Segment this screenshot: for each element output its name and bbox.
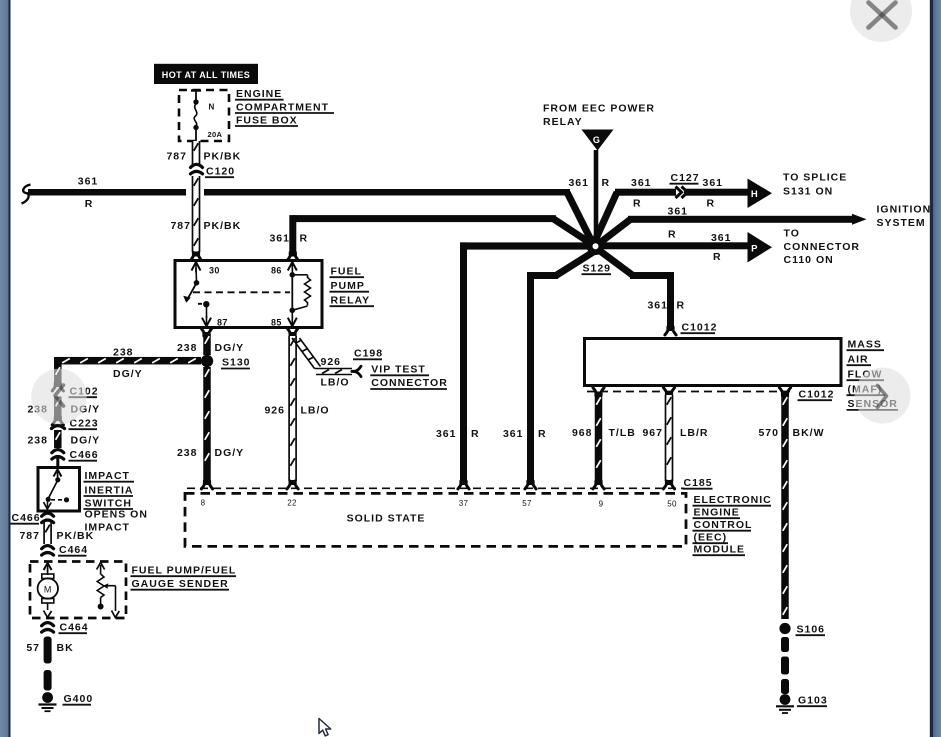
- label S106: [796, 624, 826, 636]
- svg-text:BK: BK: [57, 642, 74, 654]
- svg-text:P: P: [751, 244, 758, 255]
- label C464 upper: [58, 544, 88, 556]
- svg-text:H: H: [751, 189, 758, 200]
- svg-text:57: 57: [26, 642, 40, 654]
- svg-text:C464: C464: [60, 622, 89, 634]
- label 361 R at relay feed: [269, 233, 308, 245]
- label 361 R below G: [568, 177, 610, 189]
- relay K fuel pump relay box: [175, 261, 322, 328]
- fuel gauge sender variable resistor: [97, 563, 120, 618]
- svg-text:361: 361: [647, 300, 668, 312]
- label TO SPLICE S131 ON: [783, 172, 847, 198]
- EEC pin numbers 8 22 37 57 9 50: [201, 499, 677, 509]
- svg-text:85: 85: [271, 318, 282, 328]
- label 787 PK/BK bottom: [19, 530, 94, 542]
- connector C127: [676, 187, 688, 199]
- triangle terminal P to connector C110: [748, 232, 773, 263]
- svg-text:R: R: [713, 251, 722, 263]
- label 361 R left: [78, 176, 99, 211]
- connector flare at EEC pin 57: [525, 480, 536, 489]
- labels 968 T/LB 967 LB/R 570 BK/W: [572, 427, 825, 439]
- wire 361 R to relay pin 86: [289, 215, 591, 253]
- svg-text:R: R: [85, 198, 94, 210]
- right blue border strip overlay: [930, 0, 941, 737]
- svg-text:ENGINE: ENGINE: [694, 507, 740, 519]
- svg-text:22: 22: [287, 499, 297, 508]
- wire 238 DG/Y S130 to EEC pin 8: [203, 367, 211, 481]
- wire 361 R main horizontal from left edge: [22, 185, 593, 243]
- svg-text:R: R: [538, 428, 547, 440]
- switch SW impact inertia switch box: [38, 468, 80, 512]
- relay switch contact: [183, 280, 199, 303]
- connector C223: [52, 416, 65, 429]
- fuel pump and sender dashed box: [30, 562, 126, 619]
- wire 968 T/LB MAF to EEC pin 9: [595, 395, 603, 481]
- svg-text:SWITCH: SWITCH: [85, 497, 132, 509]
- label C102: [69, 386, 99, 398]
- inertia switch internals: [44, 470, 70, 510]
- svg-text:ELECTRONIC: ELECTRONIC: [694, 494, 772, 506]
- connector C120: [191, 164, 203, 174]
- label 926 at VIP branch: [321, 356, 342, 368]
- connector flare at EEC pin 9: [593, 480, 604, 489]
- label 238 DG/Y mid: [27, 404, 100, 416]
- label FUEL PUMP RELAY: [330, 266, 375, 307]
- label 361 R at pin 37: [436, 428, 480, 440]
- wire 361 R S129 to C127 and H: [594, 189, 749, 244]
- label 238 DG/Y upper: [177, 342, 244, 354]
- svg-text:57: 57: [522, 499, 532, 508]
- C185 connector dashed line above EEC: [187, 487, 684, 489]
- connector flare below relay pin 87: [201, 328, 212, 337]
- svg-text:50: 50: [667, 500, 677, 509]
- svg-text:37: 37: [459, 499, 469, 508]
- svg-text:238: 238: [177, 447, 198, 459]
- splice S129 ring: [587, 238, 605, 256]
- relay pin 87 contact dot and lead: [198, 301, 211, 326]
- label FROM EEC POWER RELAY: [543, 103, 655, 129]
- ground G400: [39, 692, 57, 711]
- svg-text:G: G: [593, 135, 600, 145]
- connector C466 upper: [52, 450, 64, 467]
- svg-text:FUSE BOX: FUSE BOX: [236, 114, 298, 126]
- svg-text:DG/Y: DG/Y: [71, 435, 101, 447]
- svg-text:C127: C127: [671, 172, 700, 184]
- svg-text:361: 361: [269, 233, 290, 245]
- label 361 R at P wire: [711, 232, 732, 263]
- wire 361 R S129 to EEC pin 37: [460, 242, 588, 481]
- svg-text:M: M: [44, 585, 52, 595]
- label C464 lower: [59, 622, 89, 634]
- svg-text:OPENS ON: OPENS ON: [85, 509, 148, 521]
- svg-text:DG/Y: DG/Y: [215, 342, 245, 354]
- svg-text:787: 787: [170, 220, 191, 232]
- connector flare at EEC pin 37: [458, 480, 469, 489]
- svg-text:C110 ON: C110 ON: [784, 254, 834, 266]
- engine compartment fuse box (dashed): [179, 90, 229, 141]
- svg-text:IGNITION: IGNITION: [877, 204, 932, 216]
- wire 570 BK/W MAF to S106: [781, 395, 789, 619]
- svg-text:R: R: [602, 177, 611, 189]
- connector flare 968 top: [593, 388, 604, 397]
- svg-text:INERTIA: INERTIA: [85, 484, 134, 496]
- svg-text:C198: C198: [354, 348, 383, 360]
- label 926 LB/O vertical: [264, 405, 329, 417]
- svg-text:LB/R: LB/R: [680, 427, 709, 439]
- svg-text:ENGINE: ENGINE: [236, 88, 282, 100]
- splice S130: [201, 355, 213, 367]
- mouse cursor: [319, 719, 331, 736]
- svg-text:238: 238: [177, 342, 198, 354]
- relay dashed actuation line: [193, 291, 290, 293]
- label C127: [670, 172, 700, 184]
- label G400: [63, 693, 94, 705]
- svg-text:361: 361: [78, 176, 99, 188]
- connector flare below relay pin 85: [287, 328, 298, 337]
- fuse F 20A: [191, 90, 223, 141]
- svg-text:238: 238: [113, 347, 134, 359]
- label 787 PK/BK lower: [170, 220, 241, 232]
- svg-text:AIR: AIR: [848, 354, 869, 366]
- svg-text:IMPACT: IMPACT: [85, 470, 130, 482]
- svg-text:CONTROL: CONTROL: [694, 519, 753, 531]
- wire 361 R S129 to MAF C1012: [598, 250, 674, 328]
- connector flare at EEC pin 8: [201, 480, 212, 489]
- wire 787 PK/BK switch to C464: [44, 523, 51, 545]
- svg-text:30: 30: [209, 266, 220, 276]
- label FUEL PUMP/FUEL GAUGE SENDER: [131, 565, 237, 591]
- connector flare at EEC pin 50: [663, 480, 674, 489]
- label 57 BK: [26, 642, 73, 654]
- svg-text:361: 361: [503, 428, 524, 440]
- connector C1012 flare top: [665, 326, 676, 335]
- svg-text:R: R: [633, 198, 642, 210]
- label S130: [221, 357, 251, 369]
- label C198: [353, 348, 383, 360]
- svg-text:361: 361: [668, 206, 689, 218]
- wire 238 DG/Y down to C102: [54, 365, 62, 384]
- svg-text:361: 361: [631, 177, 652, 189]
- ground G103: [776, 694, 794, 713]
- svg-text:967: 967: [642, 427, 663, 439]
- relay coil: [288, 262, 311, 326]
- svg-text:LB/O: LB/O: [301, 405, 330, 417]
- svg-text:PK/BK: PK/BK: [204, 151, 242, 163]
- svg-text:PK/BK: PK/BK: [204, 220, 242, 232]
- svg-text:C466: C466: [12, 512, 41, 524]
- svg-text:R: R: [668, 229, 677, 241]
- triangle terminal H to splice S131: [748, 179, 773, 209]
- svg-text:CONNECTOR: CONNECTOR: [784, 241, 860, 253]
- splice S106: [779, 623, 790, 634]
- right blue border strip: [930, 0, 933, 737]
- EEC module dashed box: [185, 493, 686, 546]
- wire 926 LB/O branch to VIP test connector: [292, 338, 352, 375]
- svg-text:361: 361: [568, 177, 589, 189]
- wire 787 PK/BK fusebox to C120: [193, 141, 200, 165]
- connector flare 570 top: [779, 388, 790, 397]
- svg-text:570: 570: [758, 427, 779, 439]
- connector flare 967 top: [663, 388, 674, 397]
- svg-text:C1012: C1012: [682, 322, 718, 334]
- label VIP TEST CONNECTOR: [370, 364, 447, 390]
- label LB/O at VIP branch: [321, 377, 350, 389]
- svg-text:87: 87: [217, 318, 228, 328]
- svg-text:COMPARTMENT: COMPARTMENT: [236, 101, 329, 113]
- svg-text:R: R: [300, 233, 309, 245]
- label G103: [797, 695, 828, 707]
- wire 238 DG/Y horizontal to impact switch: [54, 357, 201, 367]
- svg-text:N: N: [209, 103, 215, 112]
- label MASS AIR FLOW (MAF) SENSOR: [847, 339, 899, 411]
- label C1012 bottom: [798, 389, 835, 401]
- connector flare at relay pin 86: [287, 252, 298, 261]
- label C223: [69, 418, 99, 430]
- svg-text:PUMP: PUMP: [331, 280, 365, 292]
- wire 361 R from G to S129: [594, 150, 599, 243]
- svg-text:LB/O: LB/O: [321, 377, 350, 389]
- wire 238 DG/Y C223 to C466: [54, 430, 62, 448]
- label IMPACT INERTIA SWITCH OPENS ON IMPACT: [84, 470, 148, 534]
- connector flare at EEC pin 22: [287, 480, 298, 489]
- svg-text:G103: G103: [798, 695, 828, 707]
- svg-text:PK/BK: PK/BK: [57, 530, 95, 542]
- label HOT AT ALL TIMES: [154, 64, 258, 84]
- svg-text:9: 9: [599, 500, 604, 509]
- C1012 connector dashed line below MAF: [587, 391, 790, 393]
- label 361 R at MAF feed: [647, 300, 685, 312]
- svg-text:926: 926: [264, 405, 285, 417]
- connector C102 flare: [52, 382, 63, 391]
- label ELECTRONIC ENGINE CONTROL (EEC) MODULE: [693, 494, 772, 556]
- label 361 R ignition: [668, 206, 689, 241]
- fuel pump motor M: [38, 563, 58, 618]
- label 238 DG/Y at EEC pin 8: [177, 447, 244, 459]
- svg-text:C1012: C1012: [799, 389, 835, 401]
- svg-text:R: R: [471, 428, 480, 440]
- connector C464 upper: [42, 546, 54, 556]
- triangle terminal G from EEC power relay: [582, 130, 614, 151]
- label SOLID STATE: [347, 513, 426, 525]
- svg-text:FROM EEC POWER: FROM EEC POWER: [543, 103, 655, 115]
- viewer prev button: [31, 369, 87, 425]
- svg-text:20A: 20A: [208, 130, 223, 139]
- svg-text:RELAY: RELAY: [543, 116, 583, 128]
- label C185: [683, 477, 713, 489]
- wire 361 R S129 to ignition system: [597, 214, 867, 245]
- svg-text:C185: C185: [684, 477, 713, 489]
- svg-text:BK/W: BK/W: [793, 427, 825, 439]
- connector C198: [352, 366, 361, 376]
- label 361 R at pin 57: [503, 428, 547, 440]
- svg-text:361: 361: [703, 177, 724, 189]
- label C466 right: [69, 449, 99, 461]
- svg-text:361: 361: [711, 232, 732, 244]
- svg-text:TO SPLICE: TO SPLICE: [783, 172, 847, 184]
- svg-text:FUEL PUMP/FUEL: FUEL PUMP/FUEL: [132, 565, 237, 577]
- wire 926 LB/O relay to EEC pin 22: [289, 336, 296, 481]
- svg-text:DG/Y: DG/Y: [113, 368, 143, 380]
- svg-text:C464: C464: [59, 544, 88, 556]
- svg-text:R: R: [677, 300, 686, 312]
- svg-text:S131 ON: S131 ON: [783, 186, 833, 198]
- svg-text:926: 926: [321, 356, 342, 368]
- wire BK S106 to G103 segments: [781, 637, 789, 694]
- svg-text:SOLID STATE: SOLID STATE: [347, 513, 426, 525]
- svg-text:S106: S106: [797, 624, 826, 636]
- svg-text:GAUGE SENDER: GAUGE SENDER: [132, 578, 229, 590]
- svg-text:86: 86: [271, 266, 282, 276]
- label 238 DG/Y horizontal: [113, 347, 143, 381]
- wire 57 BK segments: [44, 637, 52, 691]
- svg-text:TO: TO: [784, 228, 800, 240]
- label C120: [205, 166, 235, 178]
- wire 361 R S129 to P: [598, 242, 748, 249]
- labels 361 R around C127: [631, 177, 723, 210]
- svg-text:CONNECTOR: CONNECTOR: [371, 377, 447, 389]
- svg-text:C466: C466: [70, 449, 99, 461]
- wire 361 R S129 to EEC pin 57: [527, 249, 598, 481]
- wire 238 DG/Y C102 to C223: [54, 397, 62, 418]
- label 238 DG/Y lower: [27, 435, 100, 447]
- svg-text:FUEL: FUEL: [331, 266, 362, 278]
- svg-text:VIP TEST: VIP TEST: [371, 364, 426, 376]
- connector C464 lower: [42, 623, 54, 633]
- label ENGINE COMPARTMENT FUSE BOX: [235, 88, 334, 126]
- label C466 left: [11, 512, 41, 524]
- svg-text:R: R: [707, 198, 716, 210]
- svg-text:C120: C120: [206, 166, 235, 178]
- MAF sensor box: [585, 339, 842, 386]
- wire 967 LB/R MAF to EEC pin 50: [666, 395, 673, 481]
- label TO CONNECTOR C110 ON: [784, 228, 860, 267]
- svg-text:361: 361: [436, 428, 457, 440]
- wire 787 PK/BK C120 to relay pin 30: [193, 176, 200, 252]
- relay pin labels 30 86 87 85: [209, 266, 282, 328]
- svg-text:HOT AT ALL TIMES: HOT AT ALL TIMES: [162, 70, 250, 80]
- svg-text:787: 787: [19, 530, 40, 542]
- svg-text:(EEC): (EEC): [694, 532, 728, 544]
- svg-text:RELAY: RELAY: [331, 295, 371, 307]
- label 787 PK/BK upper: [166, 151, 241, 163]
- svg-text:T/LB: T/LB: [609, 427, 636, 439]
- connector flare at relay pin 30: [190, 252, 201, 261]
- svg-text:8: 8: [201, 499, 206, 508]
- relay pin 30 terminal arrow: [192, 262, 201, 281]
- svg-text:968: 968: [572, 427, 593, 439]
- svg-text:S129: S129: [583, 263, 612, 275]
- svg-text:S130: S130: [222, 357, 251, 369]
- svg-text:G400: G400: [64, 693, 94, 705]
- viewer close button: [850, 0, 912, 42]
- wire 238 DG/Y relay to S130: [203, 334, 211, 355]
- svg-text:SYSTEM: SYSTEM: [877, 217, 926, 229]
- svg-text:DG/Y: DG/Y: [215, 447, 245, 459]
- label IGNITION SYSTEM: [877, 204, 932, 230]
- svg-text:238: 238: [27, 435, 48, 447]
- label C1012 top: [681, 322, 718, 334]
- svg-text:MODULE: MODULE: [694, 544, 746, 556]
- svg-text:MASS: MASS: [848, 339, 882, 351]
- label S129: [582, 263, 612, 275]
- svg-text:787: 787: [166, 151, 187, 163]
- connector C466 lower: [42, 513, 54, 523]
- viewer next button: [855, 368, 911, 424]
